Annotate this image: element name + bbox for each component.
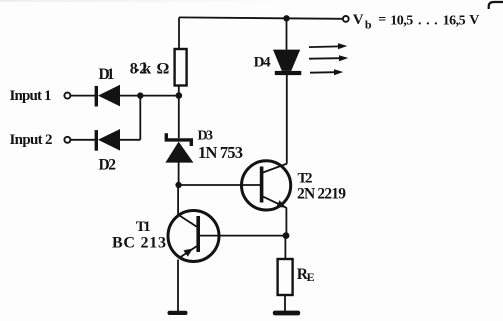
svg-text:2N 2219: 2N 2219 [297,186,346,203]
svg-text:T2: T2 [298,170,313,186]
svg-text:.: . [434,13,438,28]
svg-text:=: = [378,13,386,28]
svg-text:E: E [307,270,315,284]
svg-text:D3: D3 [198,129,214,144]
svg-text:D1: D1 [99,66,115,83]
svg-text:Input 1: Input 1 [10,88,52,104]
svg-text:Input 2: Input 2 [10,132,53,148]
svg-text:16,5: 16,5 [443,14,466,29]
svg-text:BC 213: BC 213 [112,235,166,252]
svg-text:2k: 2k [139,60,151,77]
svg-text:D4: D4 [254,54,272,70]
svg-text:.: . [418,13,422,28]
svg-text:V: V [469,13,479,28]
svg-text:8: 8 [130,60,138,77]
svg-text:D2: D2 [99,156,117,173]
svg-text:V: V [353,12,364,28]
svg-text:10,5: 10,5 [390,14,413,29]
svg-text:T1: T1 [136,219,151,235]
svg-text:b: b [365,17,372,31]
svg-text:1N 753: 1N 753 [198,143,243,162]
svg-text:.: . [426,13,430,28]
svg-text:Ω: Ω [157,60,170,77]
